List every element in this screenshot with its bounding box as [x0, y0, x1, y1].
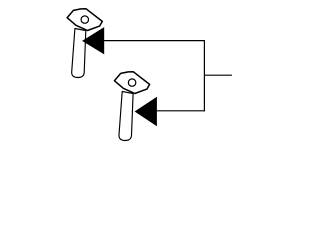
stem (shaft with rounded bottom)	[72, 29, 86, 78]
wire: top horizontal from arrow A to right bus	[104, 40, 205, 42]
head (flat polygonal cap)	[67, 9, 102, 31]
stem (shaft with rounded bottom)	[119, 92, 133, 141]
wire: right stub	[204, 74, 232, 76]
arrow B (solid left-pointing triangle)	[135, 97, 157, 126]
tool clipart 1 (top-left pin)	[67, 9, 102, 78]
tool clipart 2 (lower pin)	[114, 72, 149, 141]
wire: bottom horizontal from bus to arrow B	[156, 110, 204, 112]
head hole	[128, 79, 135, 86]
head hole	[81, 16, 88, 23]
arrow A (solid left-pointing triangle)	[82, 27, 104, 54]
head (flat polygonal cap)	[114, 72, 149, 94]
wire: right vertical bus	[203, 40, 205, 111]
